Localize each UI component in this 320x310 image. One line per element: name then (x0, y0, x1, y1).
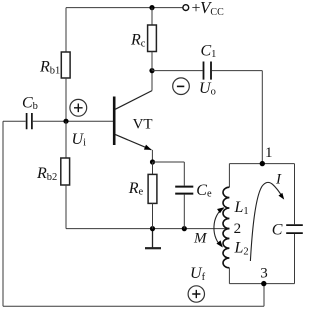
svg-text:Rc: Rc (130, 32, 146, 50)
terminal +VCC open circle (183, 5, 189, 11)
node collector (149, 68, 154, 73)
wire tank right upper (294, 164, 296, 225)
svg-text:C: C (272, 222, 283, 239)
svg-text:Rb1: Rb1 (39, 58, 60, 76)
wire bottom feedback rail (3, 305, 264, 307)
polarity mark - (Uo) (173, 78, 190, 95)
wire emitter vertical (151, 150, 153, 162)
wire top supply rail (66, 7, 183, 9)
node Ce bottom rail junction (182, 226, 187, 231)
polarity mark + (Ui) (70, 99, 87, 116)
svg-text:3: 3 (260, 265, 268, 281)
resistor Rb2 (61, 158, 70, 185)
svg-text:Uo: Uo (199, 80, 216, 98)
capacitor Cb (27, 113, 32, 129)
wire base from Cb to transistor (33, 120, 113, 122)
resistor Rc (148, 25, 157, 52)
wire bottom mid rail (emitter ground rail to coil tap) (66, 228, 229, 230)
mutual inductance arrow M (214, 205, 226, 249)
wire Re bottom (152, 203, 154, 228)
polarity mark + (Uf) (188, 286, 204, 302)
node 3 (261, 281, 266, 286)
wire collector to C1 (152, 70, 203, 72)
svg-text:+VCC: +VCC (192, 0, 225, 18)
node emitter (150, 159, 155, 164)
svg-text:Uf: Uf (190, 265, 206, 283)
svg-text:M: M (193, 231, 208, 247)
wire tank top side (229, 163, 294, 165)
wire tank right lower (294, 234, 296, 284)
wire Rb1 top (65, 8, 67, 52)
svg-text:1: 1 (265, 145, 273, 161)
node 1 (260, 161, 265, 166)
node dot top rail / Rc junction (149, 5, 154, 10)
svg-text:Rb2: Rb2 (36, 165, 57, 183)
wire Re top (152, 162, 154, 174)
node Rb2/Re rail junction (150, 226, 155, 231)
svg-text:Ui: Ui (72, 131, 87, 149)
wire node3 drop (263, 284, 265, 307)
svg-text:C1: C1 (201, 43, 217, 61)
resistor Rb1 (61, 52, 70, 78)
wire base left of Cb (3, 120, 26, 122)
wire left feedback column (2, 121, 4, 306)
node base junction (63, 119, 68, 124)
svg-text:I: I (275, 171, 282, 187)
wire Ce bottom vertical (183, 195, 185, 229)
wire tank left lower stub (228, 268, 230, 284)
svg-text:L1: L1 (234, 199, 249, 217)
wire Rb2 top (65, 121, 67, 158)
svg-text:L2: L2 (234, 240, 249, 258)
svg-text:VT: VT (133, 116, 153, 132)
wire tank node1 vertical (261, 71, 263, 164)
svg-text:2: 2 (234, 221, 242, 237)
inductor L1 (223, 187, 229, 228)
capacitor C tank (286, 225, 303, 233)
svg-text:Ce: Ce (196, 182, 212, 200)
current arrow I (250, 182, 286, 261)
wire Rb2 bottom (65, 185, 67, 229)
transistor VT (114, 91, 152, 153)
wire Rc bottom (151, 52, 153, 71)
wire emitter to Ce (153, 161, 185, 163)
inductor L2 (223, 229, 229, 268)
wire collector vertical (151, 71, 153, 91)
wire C1 to tank top (212, 70, 262, 72)
capacitor Ce (175, 187, 193, 194)
ground (145, 229, 161, 249)
resistor Re (148, 174, 157, 203)
wire Rc top (151, 8, 153, 25)
wire tank left upper stub (228, 164, 230, 188)
wire Rb1 bottom (65, 78, 67, 121)
svg-text:Re: Re (128, 180, 144, 198)
wire Ce top vertical (183, 162, 185, 186)
capacitor C1 (204, 62, 212, 80)
svg-text:Cb: Cb (22, 94, 38, 112)
wire tank bottom side (229, 283, 294, 285)
